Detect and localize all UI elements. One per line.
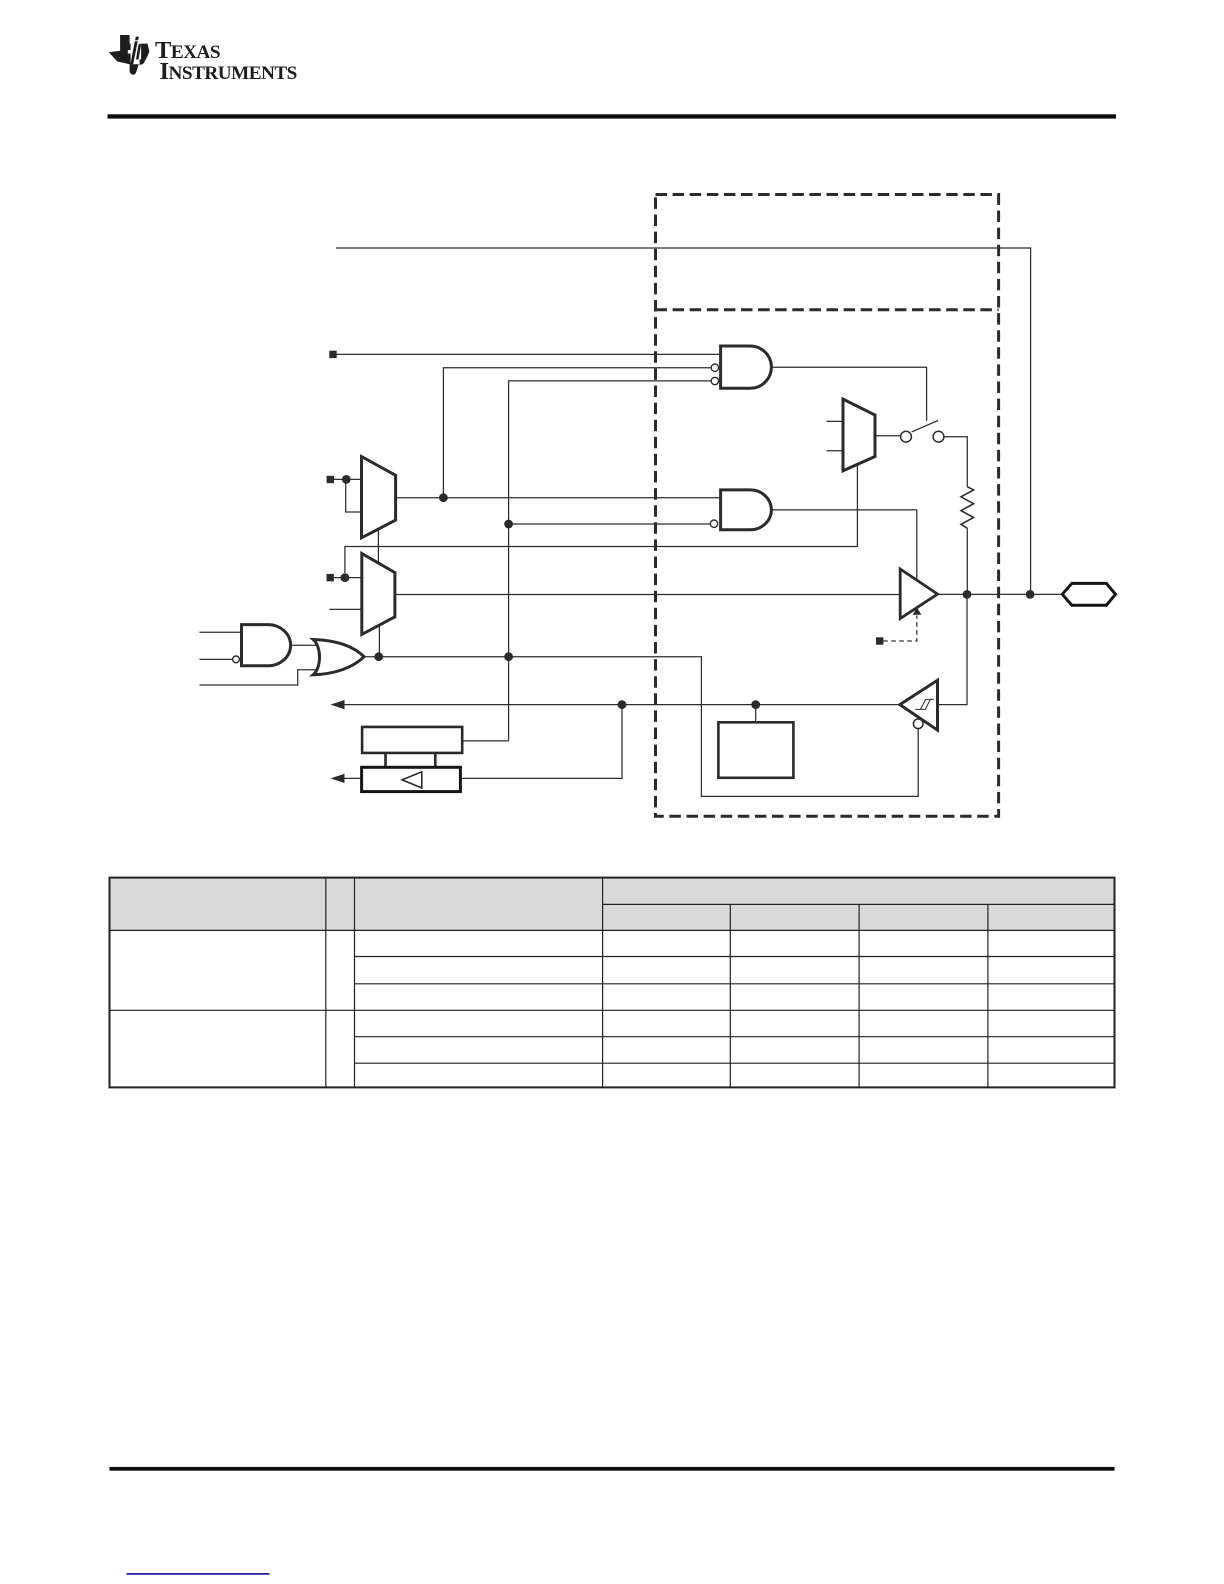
square terminal: mux M2 input	[327, 574, 334, 581]
header rule	[108, 114, 1117, 118]
output driver U5	[900, 569, 937, 619]
junction: mux M1 input	[342, 475, 351, 484]
wire: input data net from schmitt U6	[344, 704, 900, 706]
wire: driver U5 output to pad	[938, 593, 1063, 595]
wire: mux M1 select vertical	[377, 530, 379, 563]
footer link underline	[127, 1573, 270, 1575]
dashed wire: driver U5 control	[883, 616, 917, 642]
wire: mux M2 select from OR U4 output	[378, 626, 380, 657]
wire: box B2 output to input net	[460, 705, 622, 779]
wire: NAND U1 input 1	[337, 353, 721, 355]
wire: AND U3 input 1	[199, 631, 241, 633]
junction: input net to box B2	[618, 700, 627, 709]
pad hexagon P1	[1062, 583, 1115, 605]
footer rule	[110, 1467, 1115, 1471]
resistor R1	[961, 487, 974, 529]
table verticals	[326, 878, 603, 1088]
box B3	[718, 722, 793, 778]
dashed module boundary box	[656, 195, 999, 817]
mux M2	[362, 554, 395, 635]
TI logo Texas-map bug	[109, 35, 150, 75]
switch SW1 arm	[912, 421, 938, 432]
schmitt hysteresis glyph	[915, 699, 934, 709]
NAND gate U2	[721, 490, 772, 530]
square terminal: mux M1 input	[327, 476, 334, 483]
AND gate U3	[242, 625, 291, 666]
NAND gate U1	[721, 346, 772, 388]
arrowhead: input data net	[331, 700, 345, 709]
wire: NAND U1 input 2 from mux M1 output	[443, 368, 711, 498]
switch SW1 contacts	[901, 431, 912, 442]
wire: mux M2 output to driver U5 input	[395, 594, 900, 596]
mux M3	[843, 399, 875, 471]
junction: pad net	[1026, 590, 1035, 599]
square terminal: driver control	[876, 637, 883, 644]
wire: AND U3 input 2	[199, 658, 232, 660]
junction: mux M1 output branch	[439, 493, 448, 502]
buffer triangle inside B2	[402, 772, 422, 788]
OR gate U4	[313, 640, 364, 675]
wire: resistor R1 to driver output node	[966, 528, 968, 594]
TI logo wordmark	[155, 37, 292, 93]
table horizontals	[603, 903, 1115, 905]
wire: NAND U2 output to driver U5 enable	[770, 510, 917, 580]
square terminal: NAND U1 input 1	[329, 351, 336, 358]
junction: vertical bus to NAND U2 input 2	[504, 520, 513, 529]
wire: box B3 stem	[755, 705, 757, 723]
wire: mux M3 output to switch SW1	[875, 435, 901, 437]
wire: mux M3 stub inputs	[827, 421, 844, 450]
box B1 (bus keeper top)	[362, 727, 462, 753]
wire: mux M2 data input	[334, 577, 362, 579]
arrowhead: driver enable inside	[913, 608, 922, 615]
wire: mux M1 data inputs	[334, 479, 362, 512]
box B2 (with buffer symbol)	[362, 767, 461, 791]
wire: top net to pad	[336, 248, 1031, 594]
schmitt enable bubble	[913, 719, 923, 729]
wire: switch SW1 to resistor R1	[944, 437, 967, 487]
wire: OR U4 input 2	[199, 670, 317, 685]
wire: NAND U2 input 2	[509, 523, 711, 525]
arrowhead: box B2 left pin	[331, 774, 345, 783]
junction: input net to box B3	[751, 700, 760, 709]
wire: AND U3 output to OR U4	[290, 644, 316, 646]
junction: OR output net to vertical bus	[504, 652, 513, 661]
wire: OR U4 output to schmitt U6 enable	[364, 657, 918, 797]
wire: NAND U1 input 3 from vertical bus	[509, 381, 712, 741]
wire: box B1 output to vertical bus	[462, 740, 508, 742]
wire: NAND U1 output to switch SW1	[770, 367, 927, 421]
schmitt input buffer U6	[900, 680, 938, 730]
wire: mux M2 stub input	[329, 608, 361, 610]
wire: pad node to schmitt U6 input	[938, 594, 968, 704]
junction: driver output node	[963, 590, 972, 599]
junction: OR U4 output	[374, 652, 383, 661]
wire: mux M1 output to NAND U2 input 1	[396, 497, 721, 499]
mux M1	[362, 457, 396, 538]
table outer border	[110, 878, 1115, 1088]
wire: box B2 left pin	[344, 777, 362, 779]
dashed pad-logic divider	[656, 308, 999, 311]
wire: select net to mux M3	[345, 465, 858, 574]
junction: mux M2 input	[341, 573, 350, 582]
table header fill	[110, 878, 1115, 931]
